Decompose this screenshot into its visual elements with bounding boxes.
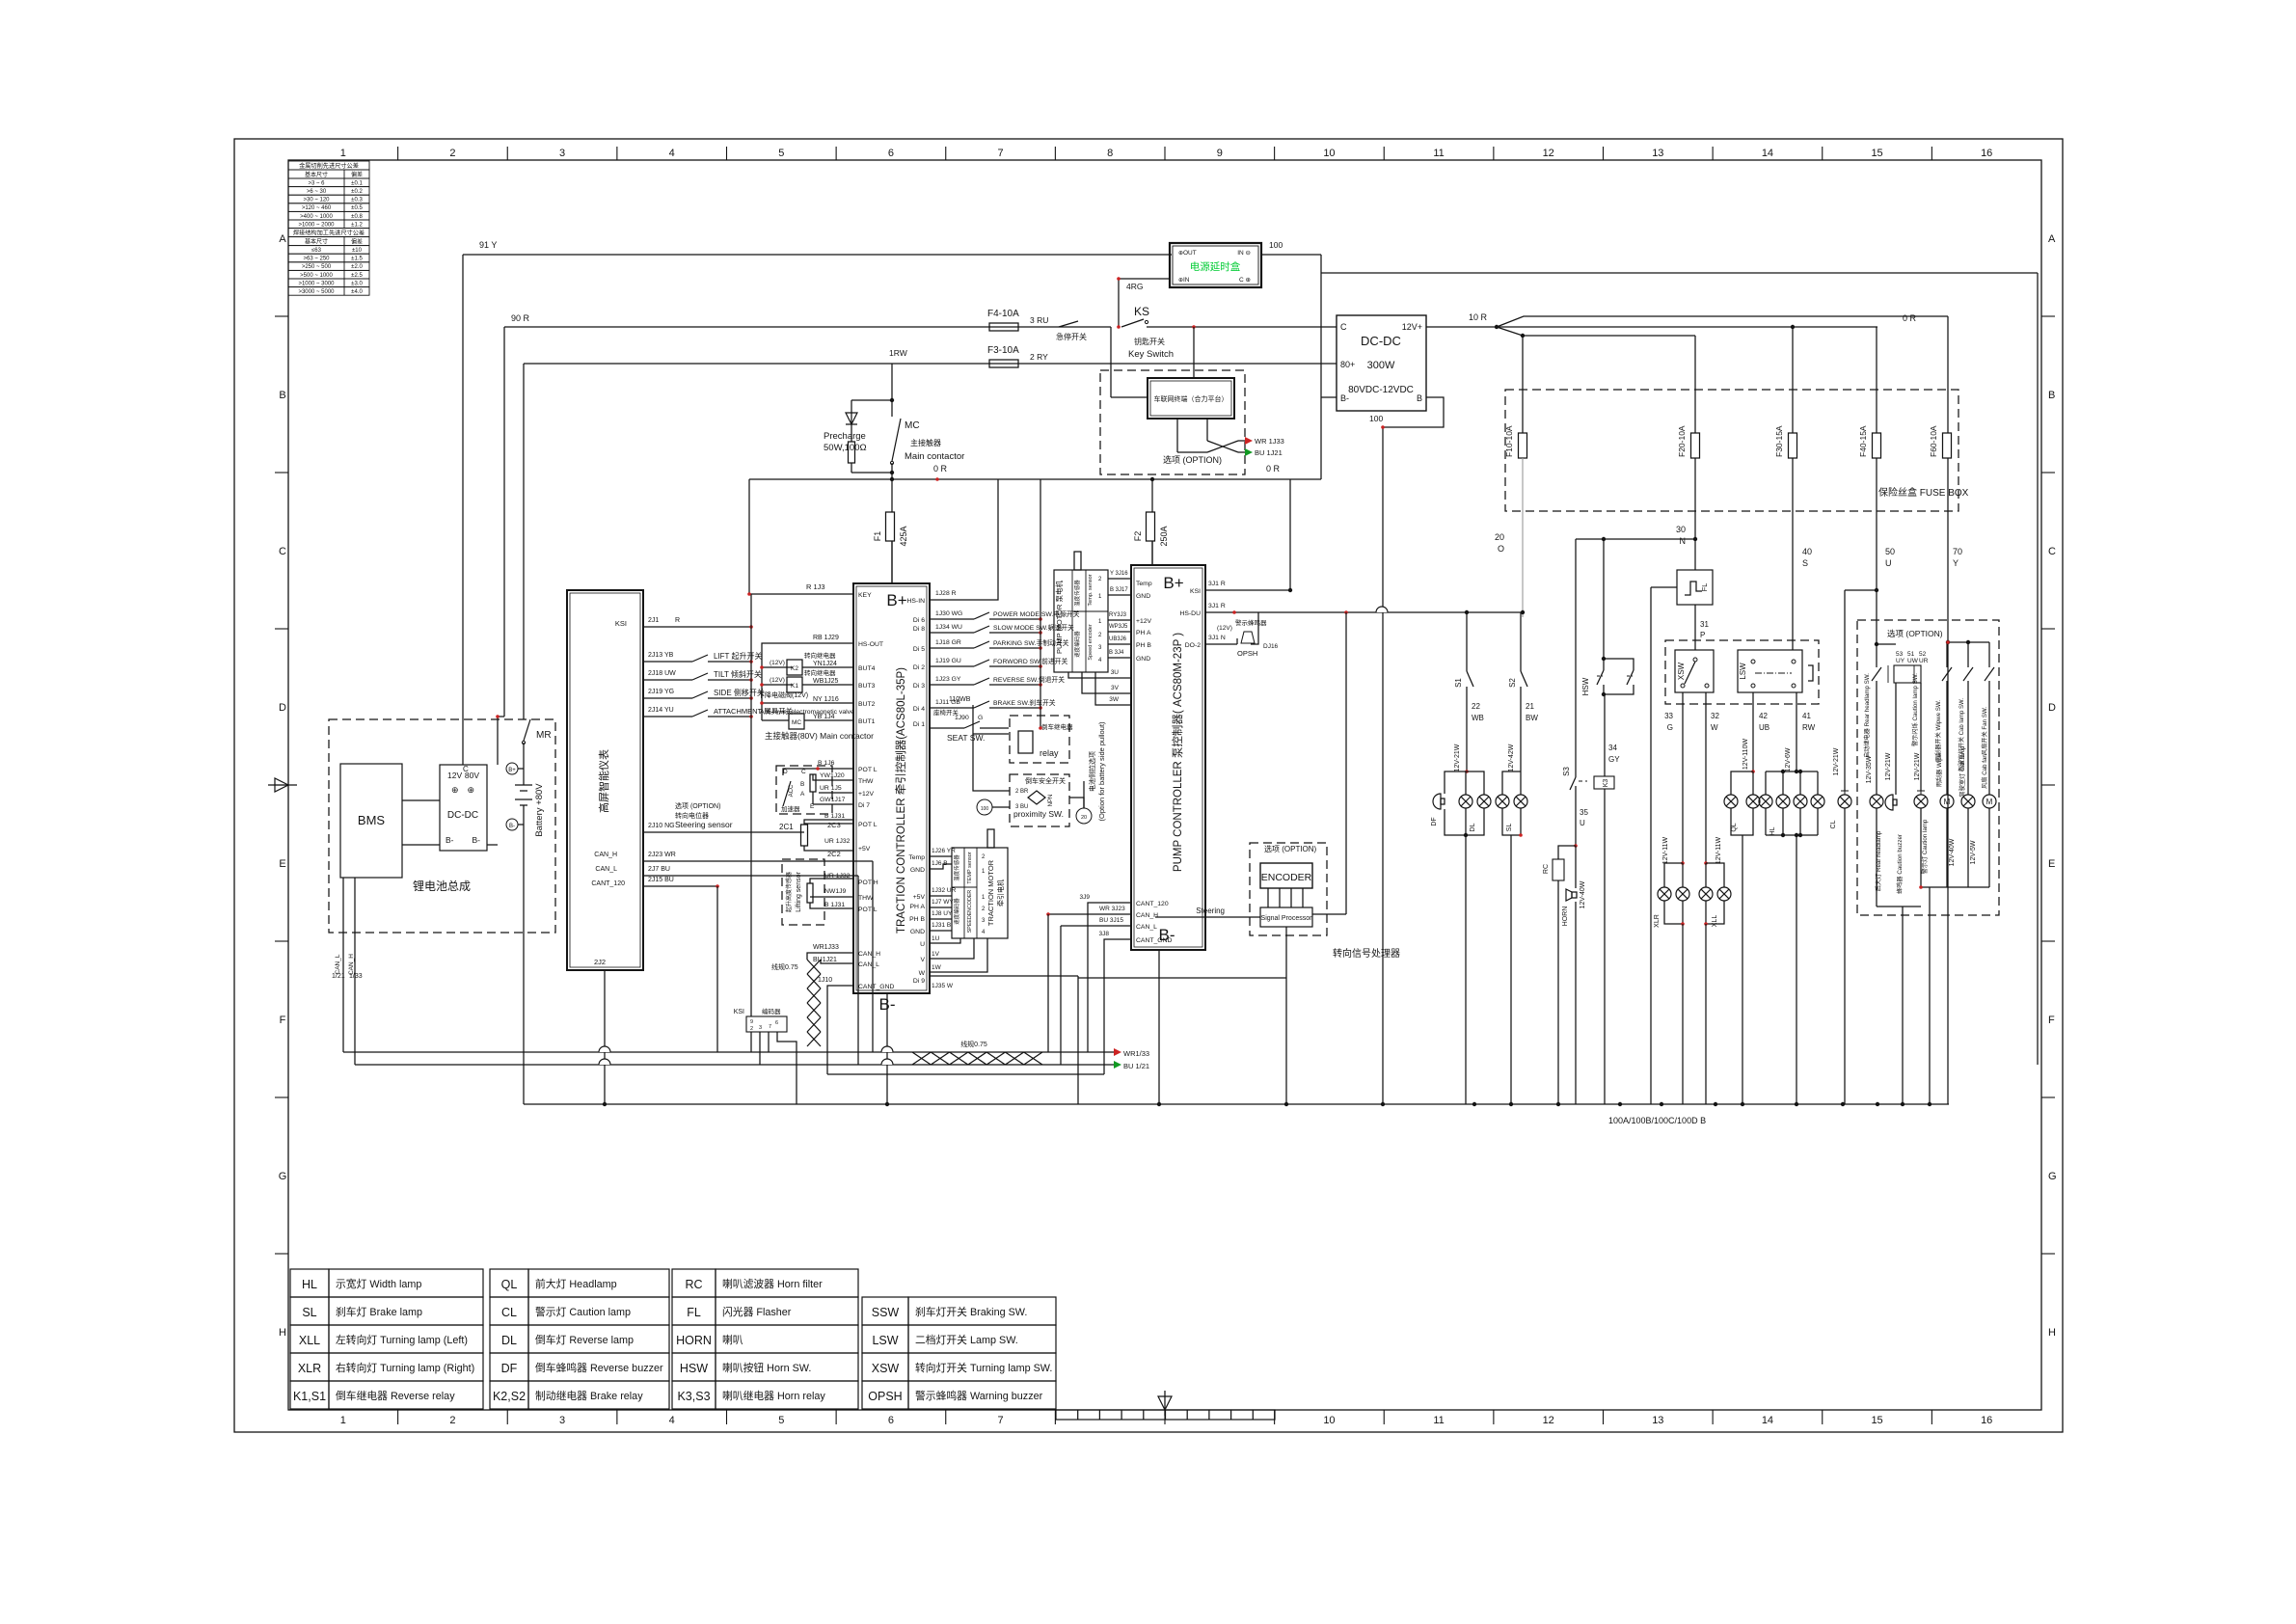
svg-text:KEY: KEY <box>858 592 872 599</box>
svg-text:10: 10 <box>1323 1415 1335 1426</box>
svg-text:34: 34 <box>1608 744 1617 752</box>
svg-text:保险丝盒 FUSE BOX: 保险丝盒 FUSE BOX <box>1878 486 1969 499</box>
lifting sensor dashed box <box>782 859 824 925</box>
svg-text:TILT 倾斜开关: TILT 倾斜开关 <box>714 669 762 679</box>
svg-text:⊕: ⊕ <box>467 785 474 795</box>
battery B- terminal <box>506 819 518 830</box>
svg-text:锂电池总成: 锂电池总成 <box>413 879 471 893</box>
svg-text:+5V: +5V <box>913 894 926 901</box>
drawing border outer frame <box>234 139 2063 1432</box>
svg-text:1J34 WU: 1J34 WU <box>935 624 962 631</box>
svg-text:12V-21W: 12V-21W <box>1914 752 1921 780</box>
battery switch MR <box>524 719 530 741</box>
svg-text:BRAKE SW.刹车开关: BRAKE SW.刹车开关 <box>993 698 1056 707</box>
battery negative bus 100 <box>524 1103 1949 1105</box>
svg-text:SPEEDENCODER: SPEEDENCODER <box>967 890 973 934</box>
power delay box 电源延时盒 <box>1170 243 1261 287</box>
svg-text:启动继电器 Rear headlamp SW.: 启动继电器 Rear headlamp SW. <box>1863 673 1871 758</box>
svg-text:RY3J3: RY3J3 <box>1109 612 1127 618</box>
svg-text:1J8 UY: 1J8 UY <box>932 910 953 917</box>
svg-text:RW: RW <box>1802 723 1816 732</box>
wire 10 R distribution <box>1426 326 1877 328</box>
svg-text:UR: UR <box>1919 658 1929 664</box>
svg-text:F30-15A: F30-15A <box>1774 425 1784 457</box>
pump B- wire <box>1158 950 1160 1104</box>
svg-text:9: 9 <box>1217 148 1223 159</box>
svg-text:2C1: 2C1 <box>779 823 794 831</box>
svg-text:±4.0: ±4.0 <box>351 289 363 295</box>
svg-text:C: C <box>279 546 286 557</box>
svg-text:G: G <box>279 1171 287 1182</box>
svg-text:425A: 425A <box>899 526 908 546</box>
svg-text:4RG: 4RG <box>1126 282 1143 291</box>
svg-text:HL: HL <box>302 1278 317 1291</box>
svg-text:BU1J21: BU1J21 <box>813 957 837 963</box>
terminal 20 <box>1076 808 1092 824</box>
svg-text:100A/100B/100C/100D B: 100A/100B/100C/100D B <box>1608 1116 1706 1125</box>
svg-text:±10: ±10 <box>352 248 363 254</box>
svg-text:±1.5: ±1.5 <box>351 257 363 262</box>
svg-text:>1000 ~ 2000: >1000 ~ 2000 <box>298 222 335 228</box>
option group feed rails <box>1948 641 1989 643</box>
fuse F40-15A <box>1876 327 1877 433</box>
wire 91 Y <box>463 254 1172 256</box>
svg-text:Di 6: Di 6 <box>913 617 925 624</box>
svg-text:±0.8: ±0.8 <box>351 214 363 220</box>
svg-text:G: G <box>1667 723 1673 732</box>
svg-text:Speed encoder: Speed encoder <box>1088 624 1094 660</box>
svg-text:GW1J17: GW1J17 <box>820 797 846 803</box>
svg-text:PH A: PH A <box>910 904 926 910</box>
switch option dashed box <box>1665 640 1819 704</box>
svg-text:TRACTION MOTOR: TRACTION MOTOR <box>986 859 995 926</box>
svg-text:驾驶室灯 Cab lamp: 驾驶室灯 Cab lamp <box>1958 745 1966 798</box>
svg-text:1J30 WG: 1J30 WG <box>935 610 962 617</box>
svg-text:22: 22 <box>1472 702 1480 711</box>
pump B+ wire <box>1151 541 1153 565</box>
svg-text:2J19 YG: 2J19 YG <box>648 689 674 695</box>
svg-text:Temp. sensor: Temp. sensor <box>1088 574 1094 606</box>
svg-text:C ⊕: C ⊕ <box>1239 277 1252 284</box>
precharge resistor <box>849 442 855 463</box>
telematics terminal dashed box 车联网终端 <box>1100 370 1245 474</box>
svg-text:1J7 WY: 1J7 WY <box>932 899 954 906</box>
svg-text:2J18 UW: 2J18 UW <box>648 670 676 677</box>
svg-text:3: 3 <box>559 1415 565 1426</box>
svg-text:线规0.75: 线规0.75 <box>771 962 798 971</box>
svg-text:F40-15A: F40-15A <box>1858 425 1868 457</box>
svg-text:1J32 UR: 1J32 UR <box>932 887 957 894</box>
svg-text:BUT2: BUT2 <box>858 701 876 708</box>
svg-text:XLL: XLL <box>1712 915 1718 928</box>
svg-text:DF: DF <box>1431 817 1438 826</box>
svg-text:16: 16 <box>1981 1415 1992 1426</box>
wire KSI 2J1 R <box>643 626 751 628</box>
svg-text:PH B: PH B <box>1136 642 1151 649</box>
wire HS-OUT RB 1J29 <box>762 643 853 720</box>
svg-text:B: B <box>800 781 804 788</box>
svg-text:2J15 BU: 2J15 BU <box>648 877 674 883</box>
svg-text:BW: BW <box>1526 714 1538 722</box>
svg-text:2J13 YB: 2J13 YB <box>648 652 674 659</box>
svg-text:2: 2 <box>750 1026 753 1032</box>
svg-text:HSW: HSW <box>680 1362 708 1375</box>
fuse F2 250A <box>1151 479 1153 512</box>
wire battery negative to bus <box>523 822 525 1104</box>
svg-text:MR: MR <box>536 730 552 741</box>
wire 100 from delay box <box>1261 254 1321 256</box>
svg-text:12V-6W: 12V-6W <box>1785 747 1792 771</box>
relay dashed box <box>1010 716 1069 763</box>
svg-text:FL: FL <box>1700 583 1709 592</box>
traction B+ wire <box>891 541 893 583</box>
svg-text:>1000 ~ 3000: >1000 ~ 3000 <box>298 281 335 286</box>
wire KEY R 1J3 <box>749 593 853 595</box>
svg-text:IN ⊖: IN ⊖ <box>1237 250 1251 257</box>
centering mark bottom arrow <box>1158 1396 1172 1410</box>
svg-text:Di 2: Di 2 <box>913 664 925 671</box>
svg-text:喇叭继电器 Horn relay: 喇叭继电器 Horn relay <box>722 1389 825 1402</box>
signal processor output <box>1285 927 1287 978</box>
svg-text:(12V): (12V) <box>770 660 785 666</box>
horn relay K3 coil <box>1594 776 1614 789</box>
svg-text:YB 1J4: YB 1J4 <box>813 714 835 720</box>
svg-text:风扇开关 Fan SW.: 风扇开关 Fan SW. <box>1981 707 1988 755</box>
battery DC-DC box <box>440 765 487 851</box>
svg-text:THW: THW <box>858 895 874 902</box>
svg-text:K3: K3 <box>1603 779 1609 788</box>
svg-text:警示灯 Caution lamp: 警示灯 Caution lamp <box>1921 819 1929 874</box>
svg-text:转向继电器: 转向继电器 <box>804 651 836 660</box>
svg-text:RC: RC <box>1543 864 1550 874</box>
flasher FL <box>1677 570 1713 605</box>
wire CANT_GND 1J10 <box>827 986 853 1074</box>
svg-text:BU 1J21: BU 1J21 <box>1255 448 1283 457</box>
svg-text:⊕: ⊕ <box>1178 251 1183 257</box>
svg-text:D: D <box>279 702 286 714</box>
svg-text:U: U <box>1885 558 1892 568</box>
svg-text:倒车继电器 Reverse relay: 倒车继电器 Reverse relay <box>336 1389 455 1402</box>
svg-text:IN: IN <box>1183 277 1190 284</box>
fuse F30-15A <box>1792 327 1794 433</box>
svg-text:Di 8: Di 8 <box>913 626 925 633</box>
connector KSI wires <box>750 1032 752 1052</box>
svg-text:电池侧拉选项: 电池侧拉选项 <box>1088 751 1096 792</box>
motor stub <box>987 829 994 848</box>
svg-text:>500 ~ 1000: >500 ~ 1000 <box>300 273 333 279</box>
svg-text:>400 ~ 1000: >400 ~ 1000 <box>300 214 333 220</box>
svg-text:±0.1: ±0.1 <box>351 180 363 186</box>
svg-text:52: 52 <box>1919 651 1927 658</box>
svg-text:警示灯 Caution lamp: 警示灯 Caution lamp <box>535 1305 631 1318</box>
lithium battery assembly dashed box 锂电池总成 <box>329 719 555 933</box>
svg-text:POWER MODE SW.电源开关: POWER MODE SW.电源开关 <box>993 609 1080 618</box>
wire KS to telematics <box>1193 327 1195 378</box>
svg-text:Steering: Steering <box>1196 907 1225 915</box>
svg-text:DC-DC: DC-DC <box>447 810 478 821</box>
svg-text:R: R <box>675 617 680 624</box>
svg-text:M: M <box>1986 798 1993 806</box>
svg-text:二档灯开关 Lamp SW.: 二档灯开关 Lamp SW. <box>915 1333 1018 1346</box>
wire DC-DC 80V feed <box>498 716 504 717</box>
svg-text:3J9: 3J9 <box>1080 894 1091 901</box>
svg-text:±2.5: ±2.5 <box>351 273 363 279</box>
brake switch wire Di4 <box>930 707 974 709</box>
svg-text:线规0.75: 线规0.75 <box>960 1040 987 1048</box>
svg-text:N: N <box>1680 536 1687 546</box>
pump CAN wires <box>1088 903 1131 1052</box>
svg-text:>120 ~ 460: >120 ~ 460 <box>302 205 332 211</box>
svg-text:SL: SL <box>302 1306 316 1319</box>
caution buzzer <box>1885 795 1893 810</box>
wire pump KSI 3J1 R <box>1205 589 1290 591</box>
traction motor UVW wires <box>930 938 960 943</box>
svg-text:0 R: 0 R <box>933 464 948 474</box>
svg-text:G: G <box>2048 1171 2057 1182</box>
svg-text:B: B <box>279 390 285 401</box>
svg-text:HS-DU: HS-DU <box>1179 610 1201 617</box>
svg-text:WB: WB <box>1472 714 1484 722</box>
svg-text:⊕: ⊕ <box>1178 278 1183 284</box>
svg-text:3 BU: 3 BU <box>1015 804 1028 810</box>
pump motor box <box>1054 570 1108 672</box>
svg-text:CL: CL <box>1830 820 1837 828</box>
svg-text:F1: F1 <box>873 531 882 542</box>
CANT_GND bus <box>827 1073 1104 1075</box>
svg-text:A: A <box>800 791 805 798</box>
svg-text:XLR: XLR <box>298 1362 321 1375</box>
svg-text:电源延时盒: 电源延时盒 <box>1190 260 1241 273</box>
svg-text:12V-110W: 12V-110W <box>1742 739 1749 771</box>
svg-text:C: C <box>2048 546 2056 557</box>
svg-text:WR1/33: WR1/33 <box>1123 1049 1149 1058</box>
wiper switch <box>1942 667 1952 681</box>
right option dashed box <box>1857 620 1999 915</box>
svg-text:B+: B+ <box>886 591 906 609</box>
lamp switch LSW <box>1738 650 1802 692</box>
svg-text:F4-10A: F4-10A <box>987 309 1019 319</box>
lift switch wire 2J13 YB <box>643 661 692 663</box>
svg-text:D: D <box>783 769 788 775</box>
svg-text:±3.0: ±3.0 <box>351 281 363 286</box>
svg-text:主接触器: 主接触器 <box>910 438 941 447</box>
svg-text:2C2: 2C2 <box>827 850 841 858</box>
svg-text:HORN: HORN <box>676 1334 712 1347</box>
wire instrument ground <box>604 970 606 1104</box>
svg-text:BU 1/21: BU 1/21 <box>1123 1062 1149 1070</box>
pump motor wires <box>1108 578 1131 580</box>
svg-text:UY: UY <box>1896 658 1905 664</box>
svg-text:Precharge: Precharge <box>824 431 866 442</box>
svg-text:PUMP MOTOR 泵电机: PUMP MOTOR 泵电机 <box>1054 581 1064 654</box>
svg-text:1J6 B: 1J6 B <box>932 860 948 867</box>
svg-text:PUMP CONTROLLER 泵控制器( ACS80M-: PUMP CONTROLLER 泵控制器( ACS80M-23P ) <box>1171 633 1184 872</box>
svg-text:牵引电机: 牵引电机 <box>996 880 1005 907</box>
connector KSI block <box>746 1016 787 1032</box>
steering sensor wire 2J10 NG <box>643 831 800 833</box>
svg-text:GND: GND <box>1136 656 1150 663</box>
battery symbol +80V <box>523 762 525 785</box>
traction B- wire <box>886 993 888 1104</box>
svg-text:±2.0: ±2.0 <box>351 264 363 270</box>
tolerance table <box>288 161 369 170</box>
wire KS branch down to telematics <box>1111 396 1148 398</box>
pump controller box ACS80M-23P <box>1131 565 1205 950</box>
svg-text:示宽灯 Width lamp: 示宽灯 Width lamp <box>336 1277 421 1290</box>
fuse box dashed enclosure <box>1505 390 1958 511</box>
svg-text:K2: K2 <box>791 665 798 672</box>
svg-text:B+: B+ <box>1163 574 1183 592</box>
svg-text:3U: 3U <box>1111 669 1120 676</box>
CAN_H bottom bus <box>343 1051 1114 1053</box>
svg-text:CAN_H: CAN_H <box>594 852 617 858</box>
svg-text:主接触器(80V) Main contactor: 主接触器(80V) Main contactor <box>765 731 874 741</box>
svg-text:YW1J20: YW1J20 <box>820 772 845 779</box>
svg-text:80VDC-12VDC: 80VDC-12VDC <box>1348 385 1414 395</box>
svg-text:3J8: 3J8 <box>1099 931 1110 937</box>
DC-DC converter 300W <box>1337 315 1426 411</box>
svg-text:1J35 W: 1J35 W <box>932 983 954 989</box>
forward switch wire Di2 <box>930 665 974 667</box>
svg-text:1J23 GY: 1J23 GY <box>935 676 961 683</box>
svg-text:10: 10 <box>1323 148 1335 159</box>
svg-text:警示蜂鸣器 Warning buzzer: 警示蜂鸣器 Warning buzzer <box>915 1389 1043 1402</box>
svg-text:51: 51 <box>1907 651 1915 658</box>
svg-text:+12V: +12V <box>1136 618 1152 625</box>
svg-text:LSW: LSW <box>872 1334 898 1347</box>
svg-text:THW: THW <box>858 778 874 785</box>
svg-text:Anti-lower electromagnetic val: Anti-lower electromagnetic valve <box>760 709 854 716</box>
svg-text:B-: B- <box>509 824 515 829</box>
cab lamp switch <box>1963 667 1973 681</box>
wire HS-IN 1J28 R <box>930 479 998 600</box>
svg-text:G: G <box>978 715 983 721</box>
svg-text:B 1J31: B 1J31 <box>824 902 845 908</box>
svg-text:2J2: 2J2 <box>594 958 606 966</box>
svg-text:B-: B- <box>446 835 454 845</box>
svg-text:>3000 ~ 5000: >3000 ~ 5000 <box>298 289 335 295</box>
svg-text:TRACTION CONTROLLER 牵引控制器(ACS: TRACTION CONTROLLER 牵引控制器(ACS80L-35P) <box>894 667 907 934</box>
svg-text:温度传感器: 温度传感器 <box>1073 580 1081 607</box>
horn relay switch S3 <box>1575 539 1577 777</box>
svg-text:11: 11 <box>1433 148 1444 159</box>
svg-text:3V: 3V <box>1111 685 1120 691</box>
main contactor coil MC small <box>762 719 789 721</box>
svg-text:BU 3J15: BU 3J15 <box>1099 917 1123 924</box>
svg-text:SSW: SSW <box>872 1306 900 1319</box>
svg-text:20: 20 <box>1495 532 1504 542</box>
brake light switch S1 <box>1466 612 1468 671</box>
svg-text:CAN_H: CAN_H <box>348 954 355 975</box>
svg-text:(Option for battery side pullo: (Option for battery side pullout) <box>1097 721 1106 821</box>
svg-text:风扇 Cab fan: 风扇 Cab fan <box>1981 754 1988 789</box>
svg-text:40: 40 <box>1802 547 1812 556</box>
svg-text:NW1J9: NW1J9 <box>824 888 847 895</box>
svg-text:±0.3: ±0.3 <box>351 198 363 203</box>
svg-text:B 1J6: B 1J6 <box>818 760 835 767</box>
relay K2 <box>762 666 793 668</box>
svg-text:70: 70 <box>1953 547 1962 556</box>
svg-text:POT H: POT H <box>858 880 878 886</box>
svg-text:1J26 YR: 1J26 YR <box>932 848 956 854</box>
svg-text:P: P <box>1700 631 1705 639</box>
svg-text:PH A: PH A <box>1136 630 1151 636</box>
svg-text:14: 14 <box>1762 148 1773 159</box>
parking switch wire Di5 <box>930 647 974 649</box>
svg-text:R 1J3: R 1J3 <box>806 582 825 591</box>
svg-text:H: H <box>279 1327 286 1339</box>
svg-text:12V-11W: 12V-11W <box>1662 836 1669 864</box>
svg-text:21: 21 <box>1526 702 1534 711</box>
svg-text:Main contactor: Main contactor <box>905 451 964 462</box>
svg-text:300W: 300W <box>1367 360 1395 371</box>
svg-text:速度编码器: 速度编码器 <box>1073 631 1081 658</box>
svg-text:⊕: ⊕ <box>451 785 459 795</box>
svg-text:K1,S1: K1,S1 <box>293 1390 326 1403</box>
svg-text:DO-2: DO-2 <box>1185 642 1201 649</box>
svg-text:KS: KS <box>1134 305 1149 318</box>
steering sensor resistor 2C1 <box>800 831 804 833</box>
svg-text:±0.5: ±0.5 <box>351 205 363 211</box>
svg-text:OPSH: OPSH <box>868 1390 902 1403</box>
svg-text:1J90: 1J90 <box>955 715 969 721</box>
svg-text:12V-21W: 12V-21W <box>1454 744 1461 771</box>
svg-text:TEMP sensor: TEMP sensor <box>967 852 973 883</box>
svg-text:B+: B+ <box>508 768 516 773</box>
frame column ticks and numbers <box>397 147 399 160</box>
svg-text:HL: HL <box>1769 826 1776 835</box>
wire HS-DU to signal processor <box>1345 612 1347 914</box>
svg-text:7: 7 <box>998 1415 1004 1426</box>
svg-text:2: 2 <box>449 1415 455 1426</box>
pump motor stub <box>1074 552 1081 570</box>
svg-text:2J10 NG: 2J10 NG <box>648 823 675 829</box>
svg-text:BMS: BMS <box>358 813 386 827</box>
svg-text:CANT_GND: CANT_GND <box>1136 937 1172 944</box>
wire 0 R mid <box>749 478 1321 480</box>
svg-text:90 R: 90 R <box>511 313 530 323</box>
reverse lamp DL <box>1459 795 1472 808</box>
svg-text:下降电磁阀(12V): 下降电磁阀(12V) <box>758 690 808 699</box>
horn filter RC <box>1558 846 1576 859</box>
svg-text:32: 32 <box>1711 712 1719 720</box>
svg-text:UW: UW <box>1907 658 1919 664</box>
svg-text:13: 13 <box>1652 1415 1663 1426</box>
svg-text:Di 4: Di 4 <box>913 706 925 713</box>
svg-text:100: 100 <box>1269 240 1283 250</box>
svg-text:DJ16: DJ16 <box>1263 643 1279 650</box>
svg-text:12V-21W: 12V-21W <box>1885 752 1892 780</box>
svg-text:F3-10A: F3-10A <box>987 345 1019 356</box>
svg-text:CANT_120: CANT_120 <box>1136 901 1169 907</box>
svg-text:前大灯 Headlamp: 前大灯 Headlamp <box>535 1277 617 1290</box>
connector arrow WR1/33 bottom <box>1114 1048 1121 1056</box>
svg-text:1U: 1U <box>932 935 940 942</box>
svg-text:2C3: 2C3 <box>827 821 841 829</box>
svg-text:YN1J24: YN1J24 <box>813 661 837 667</box>
svg-text:10 R: 10 R <box>1469 312 1488 322</box>
svg-text:温度传感器: 温度传感器 <box>953 854 960 881</box>
wire DC-DC B to 100 net <box>1383 397 1444 427</box>
svg-text:2: 2 <box>449 148 455 159</box>
svg-text:NPN: NPN <box>1048 795 1054 807</box>
legend table <box>290 1269 329 1297</box>
traction motor wires <box>930 855 952 857</box>
CAN_L bottom bus <box>355 1064 1114 1066</box>
svg-text:GND: GND <box>910 929 925 935</box>
svg-text:7: 7 <box>769 1024 771 1030</box>
svg-text:UR 1J32: UR 1J32 <box>824 873 851 880</box>
